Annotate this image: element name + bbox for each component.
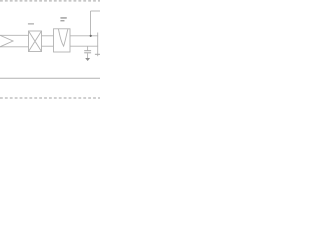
right equipment box left edge [90,11,92,37]
mixer label text [28,23,34,24]
filter box FL1 [54,29,71,52]
wire bottom line, filter to load [70,45,98,47]
capacitor C1 top plate [84,50,91,52]
dashed enclosure border top [0,0,100,2]
filter label text line 1 [60,17,66,18]
load termination vertical lead [97,33,99,57]
filter notch response curve [58,29,68,46]
right equipment box top edge [91,10,101,12]
filter label text line 2 [60,20,64,21]
wire top waveguide line, left segment [0,34,29,36]
return wire bottom bus [0,77,100,79]
mixer box U1 [29,31,42,52]
mixer X diagonal 1 [29,31,42,52]
wire top line, filter to right box [70,35,98,37]
capacitor C1 bottom plate [84,52,91,54]
junction dot node A [90,35,92,37]
wire bottom waveguide line, left segment [0,46,29,48]
wire top waveguide line, mixer to filter [42,35,54,37]
ground symbol [85,58,90,61]
capacitor C1 bottom lead [87,53,89,58]
wire bottom waveguide line, mixer to filter [42,45,54,47]
capacitor C1 top lead [87,46,89,50]
load termination bar [95,53,100,55]
horn / arrow transition chevron [0,35,13,47]
mixer X diagonal 2 [29,31,42,52]
dashed enclosure border bottom [0,97,100,99]
